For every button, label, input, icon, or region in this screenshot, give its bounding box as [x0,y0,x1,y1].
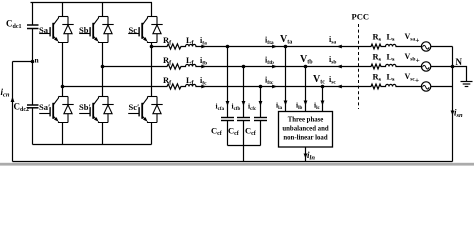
wire load tap a [285,47,287,112]
arrow isb on line b [337,65,342,69]
node n [31,60,35,64]
arrow iftb on line b [272,65,277,69]
transistor Sa' [39,97,73,123]
wire leg c midpoint vertical [151,43,153,97]
svg-text:Sb′: Sb′ [79,102,91,112]
wire source a to bus [431,46,453,48]
wire inverter bottom bus [33,144,152,146]
wire riser leg a [62,3,64,17]
arrow ifc on line c [201,85,206,89]
arrow ifta on line a [272,45,277,49]
wire riser leg b [102,3,104,17]
wire top DC bus [31,2,153,4]
svg-text:Sc: Sc [129,25,138,35]
bottom grey border [0,163,474,166]
wire leg b midpoint vertical [102,43,104,97]
wire DC-link string bottom [32,108,34,145]
arrow icfa [226,101,230,106]
svg-text:N: N [456,57,463,67]
node load tap b [304,65,308,69]
capacitor Ccf b [237,118,250,121]
capacitor Cdc2 [27,105,39,108]
capacitor Cdc1 [27,25,39,29]
wire bottom neutral bus [13,161,453,163]
arrow isa on line a [337,45,342,49]
load box three phase unbalanced and non-linear load [279,112,333,148]
arrow iln [304,154,308,159]
capacitor branch Ccf b vertical [243,67,245,118]
wire phase line a with resistor Rf and inductor Lf and resistor Rs and inductor Ls [152,44,422,49]
arrow ilb [304,101,308,106]
node load tap a [284,45,288,49]
node cap tap b [242,65,246,69]
label load text [282,117,328,142]
wire source c to bus [431,86,453,88]
capacitor Ccf c [254,118,267,121]
wire load tap c [322,87,324,112]
wire phase line c with resistor Rf and inductor Lf and resistor Rs and inductor Ls [63,84,422,89]
node line a to leg c junction [150,45,154,49]
wire from node n to left edge [13,61,33,63]
wire right neutral bus [452,47,454,162]
source Vsa circle [421,42,430,51]
wire leg b emitter drop [102,123,104,145]
node line c to leg a junction [61,85,65,89]
arrow icn [11,97,15,103]
capacitor branch Ccf c vertical [260,87,262,118]
wire PCC dashed line [358,24,360,109]
svg-text:Sc′: Sc′ [129,102,140,112]
svg-text:Sa: Sa [39,25,49,35]
wire load neutral drop iln [305,147,307,162]
capacitor branch Ccf a vertical [227,47,229,118]
wire leg a emitter drop [62,123,64,145]
wire source b to bus [431,66,453,68]
wire DC-link string middle [32,29,34,106]
node N [451,65,455,69]
arrow isc on line c [337,85,342,89]
wire cap bank neutral drop [243,146,245,162]
source Vsc circle [421,82,430,91]
node cap tap c [259,85,263,89]
wire left neutral vertical [12,62,14,162]
svg-text:non-linear load: non-linear load [283,134,327,141]
arrow ifb on line b [201,65,206,69]
arrow ila [284,101,288,106]
transistor Sa [39,17,73,43]
svg-text:PCC: PCC [352,12,369,22]
svg-text:unbalanced and: unbalanced and [282,126,328,133]
transistor Sc [128,17,163,43]
arrow isn [451,111,455,116]
arrow icfc [259,101,263,106]
source Vsb circle [421,62,430,71]
wire riser leg c [151,3,153,17]
arrow ilc [321,101,325,106]
wire ground stem [453,67,467,82]
svg-text:Sb: Sb [79,25,89,35]
ground [461,82,473,87]
transistor Sb' [79,97,114,123]
node load tap c [321,85,325,89]
wire phase line b with resistor Rf and inductor Lf and resistor Rs and inductor Ls [103,64,422,69]
svg-text:Three phase: Three phase [288,117,324,124]
arrow icfb [242,101,246,106]
wire leg c emitter drop [151,123,153,145]
transistor Sb [79,17,114,43]
wire cap bank bus [228,121,261,146]
svg-text:Sa′: Sa′ [39,102,50,112]
wire load tap b [305,67,307,112]
arrow ifa on line a [201,45,206,49]
wire leg a midpoint vertical [62,43,64,97]
node cap tap a [226,45,230,49]
transistor Sc' [128,97,163,123]
node line b to leg b junction [101,65,105,69]
wire DC-link string top [32,3,34,26]
arrow iftc on line c [272,85,277,89]
capacitor Ccf a [221,118,234,121]
